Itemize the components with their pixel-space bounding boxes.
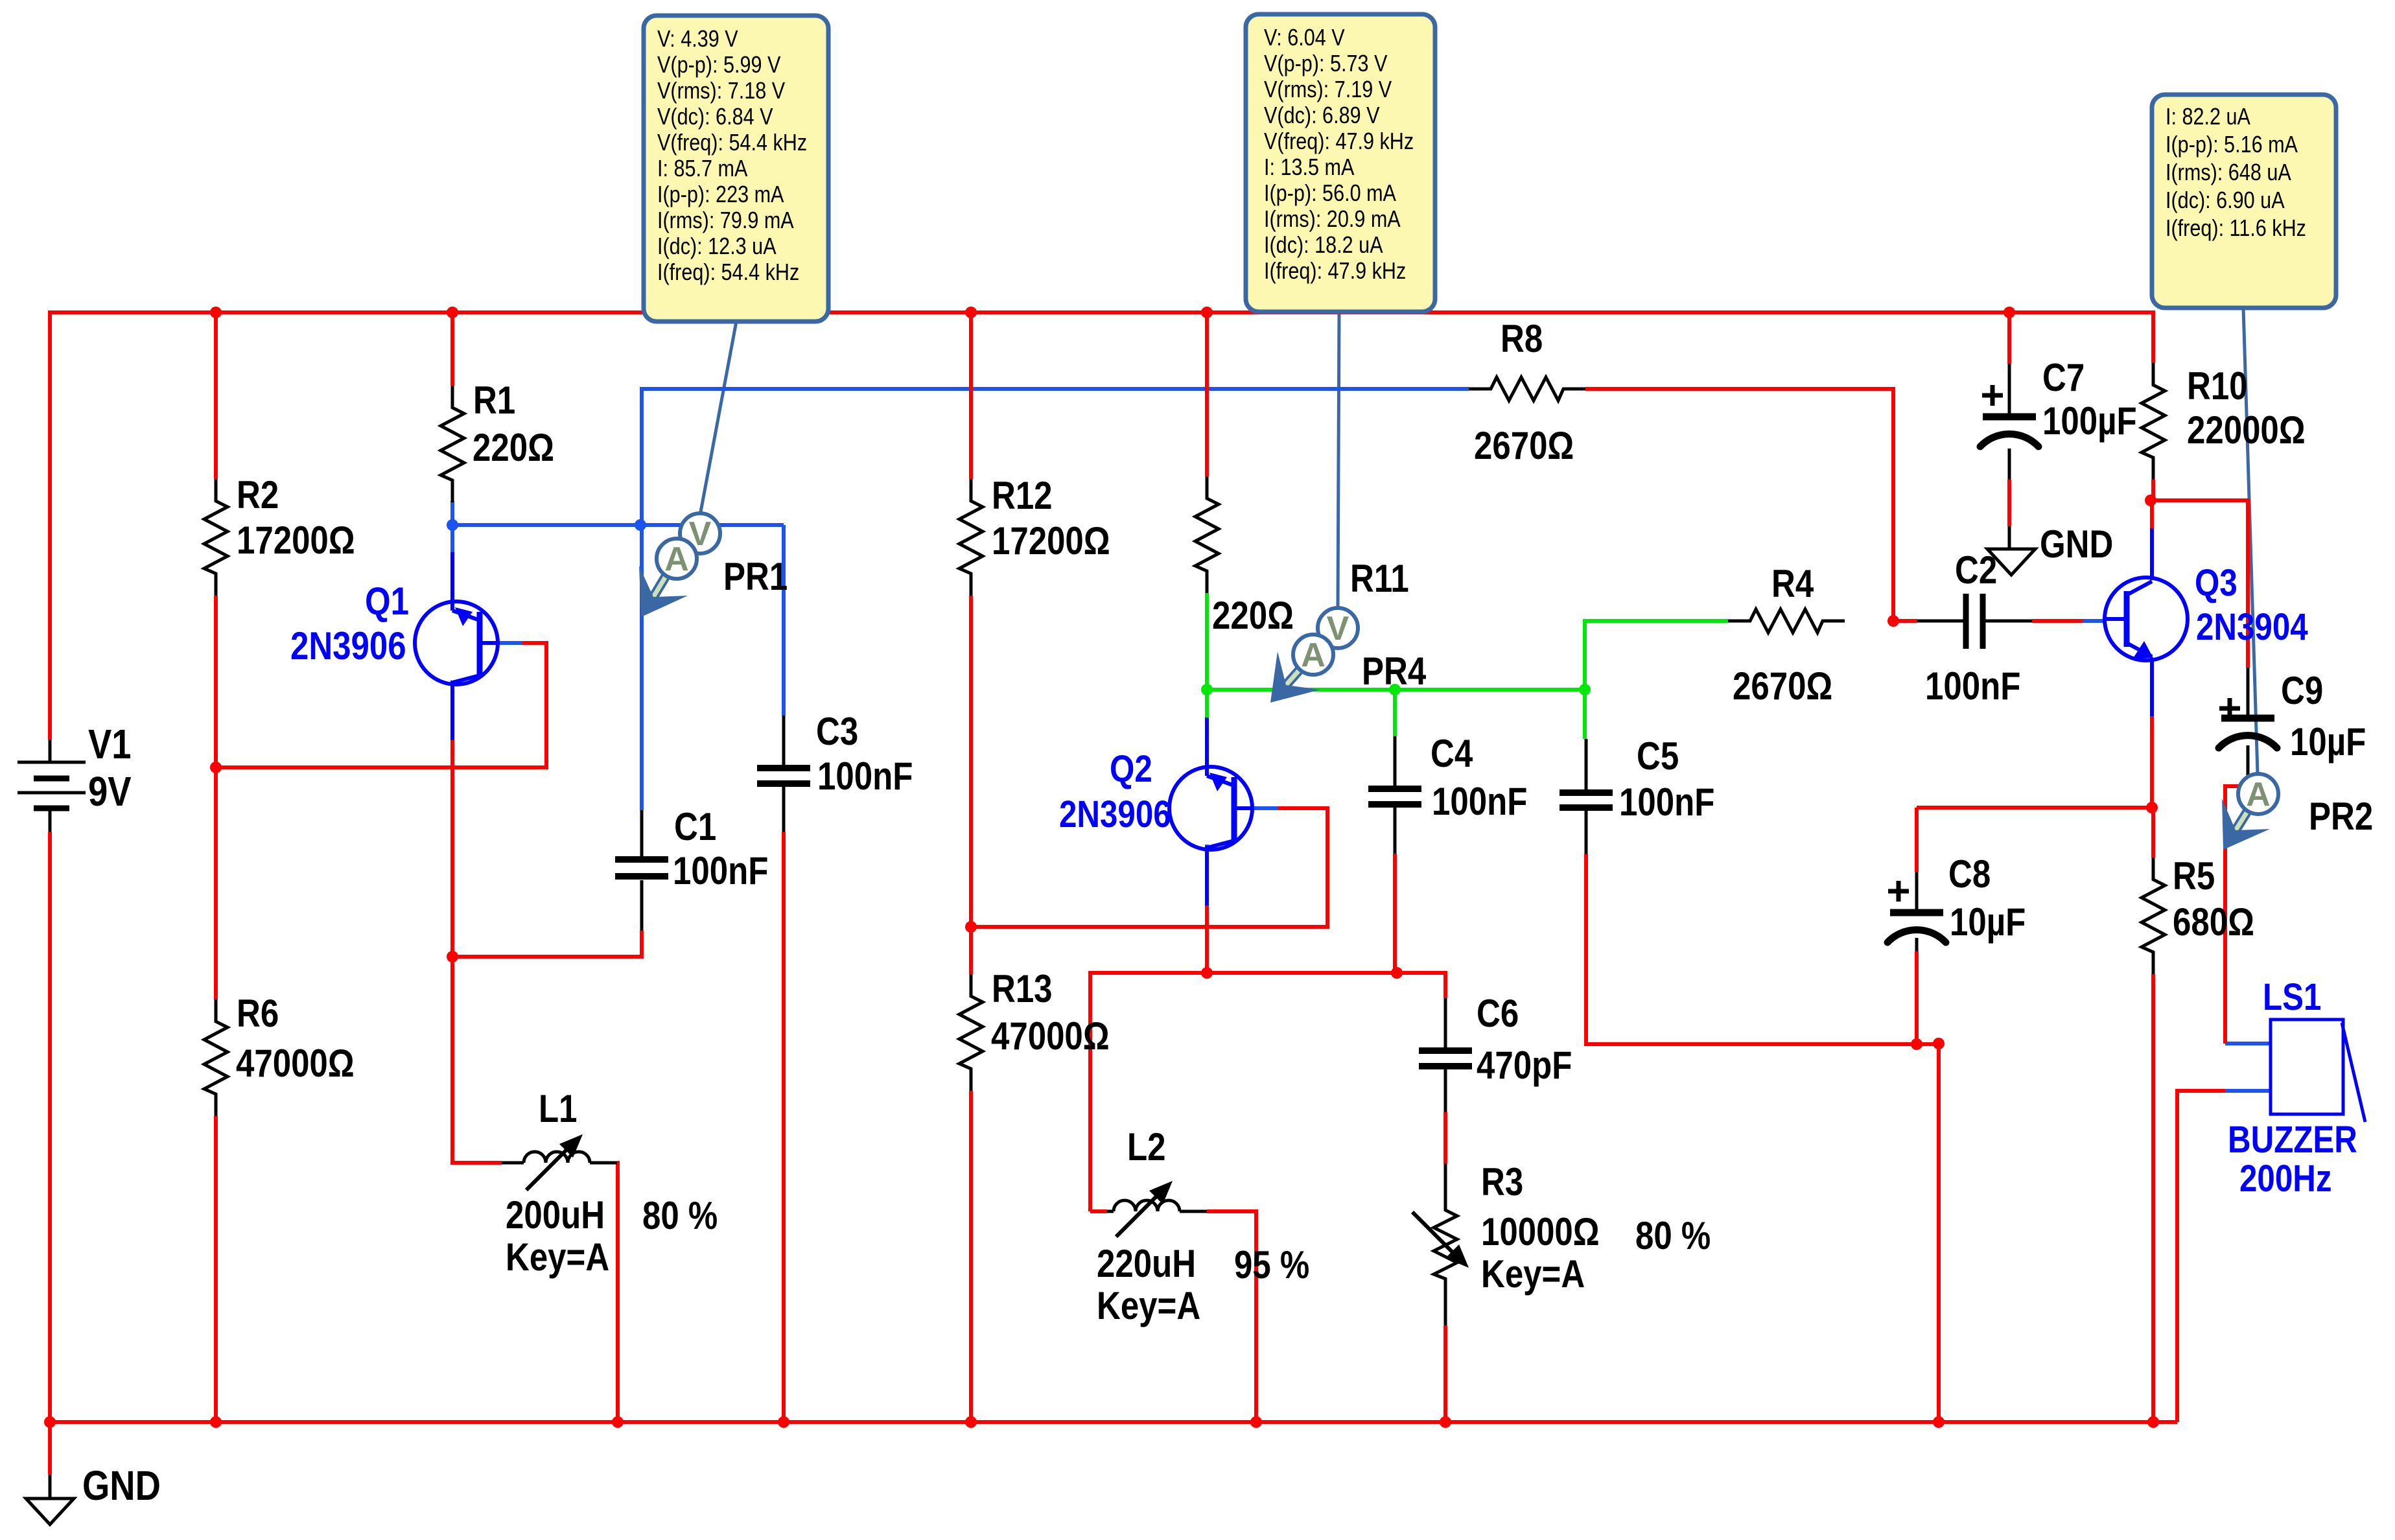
svg-text:100nF: 100nF <box>1619 780 1714 824</box>
svg-text:I: 82.2 uA: I: 82.2 uA <box>2166 104 2251 130</box>
svg-text:220Ω: 220Ω <box>473 426 554 469</box>
svg-text:100nF: 100nF <box>673 849 768 892</box>
svg-text:Q3: Q3 <box>2195 562 2237 604</box>
svg-text:R6: R6 <box>237 992 279 1035</box>
svg-text:I(p-p): 223 mA: I(p-p): 223 mA <box>657 182 784 208</box>
svg-text:I(rms): 79.9 mA: I(rms): 79.9 mA <box>657 208 794 234</box>
svg-text:Q2: Q2 <box>1110 748 1152 790</box>
svg-text:L1: L1 <box>539 1087 578 1130</box>
svg-text:2670Ω: 2670Ω <box>1474 424 1574 467</box>
svg-text:Key=A: Key=A <box>506 1235 609 1279</box>
svg-text:C9: C9 <box>2281 669 2323 712</box>
svg-text:9V: 9V <box>88 768 132 815</box>
svg-text:L2: L2 <box>1127 1125 1166 1169</box>
svg-text:V(dc): 6.84 V: V(dc): 6.84 V <box>657 104 773 130</box>
svg-text:GND: GND <box>2040 522 2113 566</box>
svg-text:V(freq): 47.9 kHz: V(freq): 47.9 kHz <box>1264 129 1414 155</box>
svg-text:I(freq): 54.4 kHz: I(freq): 54.4 kHz <box>657 260 799 286</box>
svg-text:100nF: 100nF <box>1432 780 1527 823</box>
svg-text:2N3904: 2N3904 <box>2196 606 2308 648</box>
svg-text:R13: R13 <box>992 967 1053 1010</box>
svg-text:PR4: PR4 <box>1362 649 1426 693</box>
svg-text:R3: R3 <box>1481 1160 1523 1204</box>
svg-text:I(p-p): 5.16 mA: I(p-p): 5.16 mA <box>2166 132 2298 158</box>
svg-text:I(p-p): 56.0 mA: I(p-p): 56.0 mA <box>1264 181 1397 207</box>
svg-text:PR1: PR1 <box>723 555 788 598</box>
svg-text:2670Ω: 2670Ω <box>1733 664 1832 708</box>
svg-text:V(p-p): 5.73 V: V(p-p): 5.73 V <box>1264 51 1388 77</box>
svg-text:100nF: 100nF <box>817 754 913 798</box>
svg-text:R1: R1 <box>473 379 515 422</box>
svg-text:V(rms): 7.18 V: V(rms): 7.18 V <box>657 78 786 104</box>
svg-text:V: 6.04 V: V: 6.04 V <box>1264 25 1345 51</box>
svg-text:C3: C3 <box>816 710 858 753</box>
svg-text:200uH: 200uH <box>506 1193 605 1237</box>
svg-text:V(p-p): 5.99 V: V(p-p): 5.99 V <box>657 52 781 78</box>
svg-text:100µF: 100µF <box>2042 399 2137 443</box>
svg-text:10µF: 10µF <box>1950 900 2026 944</box>
svg-text:2N3906: 2N3906 <box>1059 793 1171 835</box>
svg-text:220uH: 220uH <box>1097 1242 1196 1285</box>
svg-text:R4: R4 <box>1771 562 1814 605</box>
svg-text:BUZZER: BUZZER <box>2228 1119 2357 1161</box>
svg-text:C5: C5 <box>1637 734 1679 778</box>
svg-text:680Ω: 680Ω <box>2173 900 2254 944</box>
svg-text:I(dc): 18.2 uA: I(dc): 18.2 uA <box>1264 233 1383 259</box>
svg-text:I(rms): 648 uA: I(rms): 648 uA <box>2166 160 2291 186</box>
svg-text:95 %: 95 % <box>1234 1243 1309 1287</box>
svg-text:I(freq): 11.6 kHz: I(freq): 11.6 kHz <box>2166 216 2306 242</box>
svg-text:V(freq): 54.4 kHz: V(freq): 54.4 kHz <box>657 130 807 156</box>
svg-text:C2: C2 <box>1955 548 1997 592</box>
svg-text:80 %: 80 % <box>1635 1214 1711 1257</box>
svg-text:17200Ω: 17200Ω <box>992 519 1110 563</box>
svg-text:22000Ω: 22000Ω <box>2187 408 2306 452</box>
svg-text:GND: GND <box>82 1462 161 1509</box>
svg-text:I: 85.7 mA: I: 85.7 mA <box>657 156 748 182</box>
svg-text:C4: C4 <box>1431 732 1473 775</box>
svg-text:17200Ω: 17200Ω <box>237 519 355 562</box>
svg-text:C8: C8 <box>1948 852 1991 896</box>
svg-text:220Ω: 220Ω <box>1212 594 1294 637</box>
svg-text:47000Ω: 47000Ω <box>991 1014 1110 1058</box>
svg-text:A: A <box>1301 636 1326 674</box>
svg-text:I(dc): 6.90 uA: I(dc): 6.90 uA <box>2166 188 2285 214</box>
svg-text:10µF: 10µF <box>2290 720 2366 764</box>
svg-text:PR2: PR2 <box>2309 795 2373 838</box>
svg-text:I: 13.5 mA: I: 13.5 mA <box>1264 155 1355 181</box>
svg-text:V(rms): 7.19 V: V(rms): 7.19 V <box>1264 77 1392 103</box>
svg-text:80 %: 80 % <box>642 1194 718 1237</box>
svg-text:10000Ω: 10000Ω <box>1481 1210 1600 1254</box>
svg-text:A: A <box>664 541 689 578</box>
svg-text:I(rms): 20.9 mA: I(rms): 20.9 mA <box>1264 207 1401 233</box>
svg-text:C7: C7 <box>2042 356 2085 399</box>
svg-text:R5: R5 <box>2173 854 2215 898</box>
svg-text:Key=A: Key=A <box>1481 1252 1585 1296</box>
svg-text:I(dc): 12.3 uA: I(dc): 12.3 uA <box>657 234 777 260</box>
svg-text:V: 4.39 V: V: 4.39 V <box>657 27 738 52</box>
svg-text:100nF: 100nF <box>1925 664 2020 708</box>
svg-text:Key=A: Key=A <box>1097 1284 1200 1327</box>
svg-text:A: A <box>2246 776 2271 813</box>
svg-text:470pF: 470pF <box>1477 1044 1572 1087</box>
svg-text:R10: R10 <box>2187 364 2248 408</box>
svg-text:Q1: Q1 <box>365 579 409 623</box>
svg-text:R12: R12 <box>992 474 1053 517</box>
svg-text:I(freq): 47.9 kHz: I(freq): 47.9 kHz <box>1264 259 1406 285</box>
svg-text:V(dc): 6.89 V: V(dc): 6.89 V <box>1264 103 1380 129</box>
svg-text:47000Ω: 47000Ω <box>236 1042 355 1085</box>
svg-text:2N3906: 2N3906 <box>290 624 406 668</box>
svg-text:LS1: LS1 <box>2263 976 2321 1018</box>
svg-text:C1: C1 <box>674 805 716 848</box>
svg-text:V1: V1 <box>88 721 132 767</box>
svg-text:R8: R8 <box>1501 317 1543 360</box>
svg-text:R2: R2 <box>237 473 279 517</box>
svg-text:200Hz: 200Hz <box>2239 1158 2331 1200</box>
svg-text:C6: C6 <box>1477 992 1519 1035</box>
svg-text:R11: R11 <box>1350 557 1409 600</box>
